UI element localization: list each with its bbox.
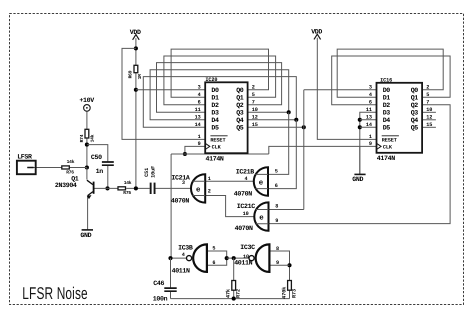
resistor R74 14k [79,129,95,142]
wire IC3C pin 8 to R73 [269,251,289,280]
svg-text:4: 4 [198,92,201,98]
svg-text:CLK: CLK [383,144,393,150]
svg-text:14: 14 [366,122,372,128]
svg-text:Q1: Q1 [236,95,244,102]
svg-text:5: 5 [212,246,215,252]
transistor Q1 2N3904 (NPN, mirrored) [55,176,95,199]
svg-text:4: 4 [369,92,372,98]
svg-text:4: 4 [182,252,185,258]
svg-text:4070N: 4070N [171,198,189,205]
svg-text:13: 13 [366,115,372,121]
svg-text:D1: D1 [383,95,391,102]
wire Q1 base to R75 [94,187,117,189]
svg-text:8: 8 [275,204,278,210]
svg-text:R75: R75 [123,190,131,196]
svg-text:R69: R69 [127,70,133,78]
junction IC16 D4 tie [358,118,362,122]
wire IC20 feedback Q0 to D1 [171,49,268,97]
svg-text:e: e [259,215,264,223]
svg-text:2N3904: 2N3904 [55,182,77,189]
svg-text:3: 3 [182,180,185,186]
wire Q5 node vertical [303,90,305,210]
svg-text:Q1: Q1 [411,95,419,102]
wire node A down to C46 [170,258,172,288]
svg-text:C46: C46 [153,280,164,287]
svg-text:2: 2 [208,189,211,195]
wire clock line horizontal [171,153,269,155]
svg-text:5: 5 [275,169,278,175]
XOR gate IC21B (4070N, mirrored) [234,167,278,197]
svg-text:IC3C: IC3C [240,244,255,251]
wire R76 to collector node [70,167,87,169]
resistor R76 14k [62,159,75,175]
svg-text:6: 6 [212,260,215,266]
svg-text:1: 1 [198,134,201,140]
svg-text:11: 11 [366,107,372,113]
wire IC16 Q4 stub (pin 12) [422,119,436,121]
IC20 pin numbers [195,85,258,148]
wire R75 to C51 [126,187,150,189]
svg-text:Q3: Q3 [411,110,419,117]
svg-text:1M: 1M [137,74,143,80]
svg-text:9: 9 [275,218,278,224]
supply VDD (right) [311,29,322,40]
wire IC20 CLK (pin 9) stub [185,146,205,154]
wire IC20 feedback Q2 to D3 [157,63,282,113]
wire IC16 feedback Q1 to D2 [332,56,450,105]
svg-text:Q3: Q3 [236,110,244,117]
wire R73 bottom to rail [289,290,291,298]
svg-text:IC3B: IC3B [178,245,193,252]
svg-text:100n: 100n [153,296,168,303]
wire IC16 ground tie vertical [359,146,361,174]
svg-text:Q4: Q4 [411,117,419,124]
svg-text:8: 8 [276,246,279,252]
ground GND (IC16 unused inputs) [352,174,365,183]
junction R74 / C50 branch [85,143,89,147]
svg-text:D1: D1 [211,95,219,102]
wire C46 bottom to rail [170,291,172,298]
svg-text:C50: C50 [91,154,102,161]
supply +10V [79,97,94,111]
svg-text:12: 12 [252,115,258,121]
svg-text:1: 1 [369,134,372,140]
svg-text:Q0: Q0 [236,87,244,94]
wire C50 top branch [87,145,108,162]
svg-text:IC21A: IC21A [171,174,189,181]
svg-text:Q4: Q4 [236,117,244,124]
wire oscillator bottom rail [171,298,290,300]
junction IC16 D5 tie [358,125,362,129]
svg-text:e: e [196,186,201,194]
junction VDD rail / RESET branch [134,46,138,50]
junction IC20 Q5 tap [302,125,306,129]
wire IC20 Q3 down to IC21B pin 5 [268,112,289,174]
resistor R75 14k [118,180,132,196]
NAND gate IC3B (4011N, mirrored, inverting bubble) [172,244,216,274]
svg-text:5: 5 [426,92,429,98]
wire R74 bottom to Q1 collector node [86,138,88,168]
svg-text:LFSR: LFSR [17,153,32,160]
svg-text:13: 13 [195,115,201,121]
svg-text:4011N: 4011N [172,267,190,274]
junction C50 / base row [105,186,109,190]
svg-text:4174N: 4174N [377,155,395,162]
svg-text:Q0: Q0 [411,87,419,94]
capacitor C51 10uF (polarized) [144,166,156,194]
wire IC3B output (pin 4) [171,257,187,259]
svg-text:10: 10 [243,211,249,217]
wire R69 bottom to node D0 and down to C51 node [135,73,137,189]
svg-text:Q5: Q5 [236,125,244,132]
junction clock node [183,152,187,156]
hex D flip-flop IC20 4174N [205,77,247,163]
IC16 pin numbers [366,85,432,148]
svg-text:C51: C51 [144,168,150,177]
wire IC20 Q5 row (pin 15) [248,126,304,128]
svg-text:IC21B: IC21B [236,168,254,175]
svg-text:12: 12 [426,115,432,121]
wire IC16 feedback Q0 to D1 [337,49,443,97]
svg-text:RESET: RESET [382,137,397,143]
wire LFSR connector to R76 [27,167,61,169]
svg-text:6: 6 [198,100,201,106]
NAND gate IC3C (4011N, mirrored, inverting bubble) [234,244,279,272]
svg-text:1: 1 [208,176,211,182]
supply VDD (left) [130,29,141,40]
svg-text:D3: D3 [383,110,391,117]
svg-text:6: 6 [275,183,278,189]
svg-text:2: 2 [252,85,255,91]
wire Q5 node to IC21C pin 8 [269,209,304,211]
wire VDD rail to R69 top [135,38,137,65]
wire IC20 feedback Q3 to D4 [150,70,289,120]
svg-text:D4: D4 [383,117,391,124]
svg-text:15: 15 [426,122,432,128]
svg-text:Q5: Q5 [411,125,419,132]
svg-text:Q2: Q2 [411,102,419,109]
wire IC16 D5 (pin 14) stub [360,126,377,128]
svg-text:D5: D5 [211,125,219,132]
svg-text:D2: D2 [383,102,391,109]
resistor R69 1M [127,65,143,79]
wire C51 to IC21A output (pin 3) [156,187,192,189]
wire IC20 feedback Q4 to D5 [143,77,296,128]
svg-text:4070N: 4070N [235,225,253,232]
XOR gate IC21A (4070N, mirrored) [171,174,211,205]
svg-text:2: 2 [426,85,429,91]
wire IC20 feedback Q1 to D2 [164,56,276,105]
svg-text:47k: 47k [226,289,232,298]
svg-text:Q2: Q2 [236,102,244,109]
svg-text:5: 5 [252,92,255,98]
wire +10V to R74 [86,111,88,129]
svg-text:9: 9 [198,141,201,147]
svg-text:4011N: 4011N [234,259,252,266]
svg-text:9: 9 [369,141,372,147]
svg-text:D0: D0 [211,87,219,94]
resistor R73 470k [282,281,298,299]
wire IC21C output (pin 10) to IC21A pin 2 [205,196,254,217]
resistor R72 47k [226,281,242,299]
svg-text:11: 11 [195,107,201,113]
svg-text:15: 15 [252,122,258,128]
svg-text:R72: R72 [236,289,242,298]
svg-text:14: 14 [195,122,201,128]
svg-text:14k: 14k [89,134,95,142]
svg-text:14k: 14k [67,159,75,165]
junction IC3C pin 9 / R73 [287,263,291,267]
wire D0 row into IC20 pin 3 [136,89,205,91]
junction R72 top node [232,256,236,260]
wire IC16 Q3 stub (pin 10) [422,111,436,113]
hex D flip-flop IC16 4174N [377,77,423,162]
wire IC20 Q4 down to IC21B pin 6 [268,120,296,189]
wire node down to R72 [233,258,235,280]
svg-text:14k: 14k [124,180,132,186]
svg-text:470k: 470k [282,287,288,299]
wire IC16 D3 (pin 11) to ground tie [360,112,377,174]
wire emitter to ground [87,196,89,230]
svg-text:D3: D3 [211,110,219,117]
wire clock line to IC16 CLK (pin 9) [269,146,377,154]
svg-text:D2: D2 [211,102,219,109]
junction IC3B input tie [225,256,229,260]
svg-text:7: 7 [252,100,255,106]
wire IC21B output (pin 4) to IC21A pin 1 [205,180,254,182]
svg-text:4: 4 [245,176,248,182]
wire IC16 Q5 stub (pin 15) [422,126,436,128]
svg-text:10: 10 [252,107,258,113]
svg-text:R73: R73 [292,289,298,298]
svg-text:IC21C: IC21C [237,203,255,210]
XOR gate IC21C (4070N, mirrored) [235,202,279,232]
svg-text:D0: D0 [383,87,391,94]
wire C50 bottom to base node [107,165,109,188]
svg-text:R74: R74 [79,134,85,142]
svg-text:10: 10 [426,107,432,113]
junction rail / R72 [232,297,236,301]
svg-text:RESET: RESET [210,137,225,143]
wire Q5 node up to IC16 D0 (pin 3) [304,89,377,91]
svg-text:e: e [259,179,264,187]
wire VDD branch to IC20 RESET (pin 1) [122,48,205,139]
svg-text:D5: D5 [383,125,391,132]
svg-text:10uF: 10uF [150,166,156,178]
svg-text:1n: 1n [96,168,104,175]
junction IC20 Q4 tap [294,118,298,122]
junction R69 / D0 row [134,88,138,92]
svg-text:D4: D4 [211,117,219,124]
wire IC3B tied inputs (pins 5,6) [207,251,227,265]
svg-text:LFSR Noise: LFSR Noise [22,284,88,303]
svg-text:CLK: CLK [212,144,222,150]
wire R72 bottom to rail [233,290,235,298]
wire IC16 Q2 (pin 7) loop to IC21C pin 9 [269,105,451,224]
svg-text:7: 7 [426,100,429,106]
svg-text:GND: GND [352,176,363,183]
ground GND (Q1 emitter) [80,230,93,239]
wire IC16 D4 (pin 13) stub [360,119,377,121]
wire VDD2 down to IC16 RESET (pin 1) [317,38,376,140]
svg-text:GND: GND [80,232,91,239]
capacitor C46 100n [153,280,177,302]
capacitor C50 1n [91,154,114,175]
svg-text:4070N: 4070N [234,191,252,198]
wire tie to IC3C output (pin 10) [227,257,249,259]
junction IC20 Q3 tap [287,110,291,114]
svg-text:+10V: +10V [79,97,94,104]
junction collector node [85,165,89,169]
svg-text:IC16: IC16 [380,77,392,83]
wire clock line to oscillator [170,154,172,258]
wire collector vertical [86,168,88,180]
connector LFSR (output pad) [17,153,36,174]
wire IC3C pin 9 stub [269,264,289,266]
svg-text:3: 3 [198,85,201,91]
svg-text:R76: R76 [66,169,74,175]
svg-text:6: 6 [369,100,372,106]
svg-text:4174N: 4174N [206,156,224,163]
junction D0 feedback / base row [134,186,138,190]
junction oscillator node A [168,256,172,260]
svg-text:IC20: IC20 [205,77,217,83]
svg-text:9: 9 [276,260,279,266]
svg-text:3: 3 [369,85,372,91]
